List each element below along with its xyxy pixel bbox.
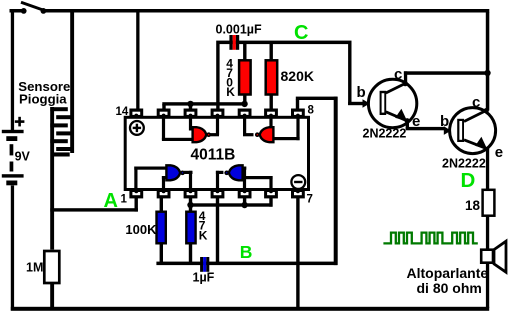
wire top rail right segment <box>43 9 489 13</box>
junction dot pin3 bus <box>187 202 193 208</box>
wire gate4 output to pin4 <box>216 171 224 174</box>
wire top rail left segment <box>10 9 25 13</box>
wire node C vertical <box>348 44 351 105</box>
IC 4011B body U1 <box>125 117 308 189</box>
pin 6 <box>264 190 278 199</box>
svg-text:1µF: 1µF <box>193 271 215 285</box>
wire pin14 drop <box>136 12 139 109</box>
wire Q1 collector horizontal <box>404 71 486 75</box>
wire Q1 base horizontal <box>348 102 365 105</box>
wire 18 to speaker vertical <box>486 217 489 251</box>
svg-text:D: D <box>461 169 476 192</box>
svg-text:4011B: 4011B <box>191 146 236 163</box>
pin 4 <box>211 190 225 199</box>
transistor Q1 2N2222 <box>363 71 417 129</box>
wire right rail <box>486 12 490 111</box>
wire gate1 input from pin12 <box>189 118 192 131</box>
wire pin4 long vertical to node B <box>216 197 219 263</box>
resistor 470K red <box>239 60 251 94</box>
switch S1 <box>21 2 46 14</box>
pin 7 <box>291 190 305 199</box>
pin 12 <box>184 109 198 118</box>
junction dot pin10 470K <box>241 101 247 107</box>
resistor 1M <box>44 251 59 283</box>
wire 47K bottom stub <box>189 244 192 263</box>
pin 8 <box>291 109 305 118</box>
wire gate3 input from pin2 <box>162 176 165 190</box>
svg-text:14: 14 <box>116 106 129 118</box>
svg-text:18: 18 <box>465 198 481 213</box>
wire gate2 output to pin10 <box>243 133 254 136</box>
wire gate1 input from pin13 <box>162 118 165 140</box>
svg-text:e: e <box>412 113 420 130</box>
NAND gate U1D blue mirrored <box>225 165 242 180</box>
wire sensor left electrode down <box>50 107 54 250</box>
speaker <box>481 241 506 272</box>
pin 10 <box>238 109 252 118</box>
svg-text:C: C <box>294 22 308 44</box>
resistor 100K blue <box>157 212 166 244</box>
pin 11 <box>211 109 225 118</box>
wire sensor right electrode drop <box>70 12 74 153</box>
wire node B horizontal <box>156 262 337 266</box>
svg-text:K: K <box>226 85 235 99</box>
resistor 18 <box>483 190 495 216</box>
wire node A horizontal <box>50 208 138 211</box>
pin 1 <box>129 190 143 199</box>
pin 3 <box>184 190 198 199</box>
wire pin1 stub down <box>135 197 138 212</box>
svg-text:8: 8 <box>308 105 315 117</box>
wire node C horizontal (cap wire) <box>216 41 351 45</box>
wire left vertical battery top <box>11 9 14 130</box>
V+ symbol circle plus <box>130 121 144 135</box>
wire bottom rail <box>11 307 489 311</box>
capacitor 1uF <box>200 257 209 272</box>
pin 13 <box>157 109 171 118</box>
svg-text:7: 7 <box>307 194 313 206</box>
pin 9 <box>264 109 278 118</box>
svg-text:b: b <box>440 113 449 130</box>
wire gate2 input from pin9 <box>269 118 272 131</box>
wire pin12 stub <box>189 104 192 110</box>
junction dot pin5 bus <box>241 202 247 208</box>
resistor 820K red <box>266 60 278 94</box>
rain sensor comb <box>50 107 74 156</box>
transistor Q2 2N2222 <box>444 108 496 154</box>
battery 9V <box>2 117 25 186</box>
svg-text:K: K <box>199 228 208 242</box>
wire 820K bottom stub to pin9 <box>270 94 273 109</box>
wire gate3 output to pin3 <box>184 171 193 174</box>
wire battery bottom vertical <box>11 186 14 311</box>
wire gate3 input from pin1 <box>134 167 137 190</box>
capacitor 0.001uF <box>229 35 239 50</box>
svg-text:b: b <box>357 84 366 101</box>
wire lower external bus pins3-6 <box>189 203 273 206</box>
wire 820K top stub <box>270 44 273 61</box>
wire Q2 emitter vertical to 18 <box>486 147 489 190</box>
junction dot pin12 bus <box>187 101 193 107</box>
svg-text:1: 1 <box>121 194 128 206</box>
pin 5 <box>238 190 252 199</box>
wire pin7 vertical to bottom rail <box>296 197 299 307</box>
svg-text:B: B <box>240 242 253 262</box>
wire Q1 emitter to Q2 base horizontal <box>406 127 446 130</box>
V- symbol circle minus <box>291 175 305 189</box>
pin 2 <box>157 190 171 199</box>
svg-text:2N2222: 2N2222 <box>363 127 407 141</box>
svg-text:100K: 100K <box>125 222 157 237</box>
svg-text:di 80 ohm: di 80 ohm <box>417 280 482 296</box>
svg-text:9V: 9V <box>15 150 31 164</box>
wire pin5 stub down <box>243 197 246 207</box>
wire 47K top stub <box>189 197 192 212</box>
svg-text:A: A <box>104 190 118 212</box>
svg-text:Altoparlante: Altoparlante <box>407 265 489 281</box>
junction dot right rail collector <box>484 70 490 76</box>
wire speaker to bottom rail <box>486 263 489 308</box>
wire 100K bottom stub <box>160 244 163 263</box>
svg-text:c: c <box>472 94 480 111</box>
wire pin8 top horizontal <box>296 97 337 100</box>
wire 470K bottom stub <box>243 94 246 106</box>
wire pin13 stub <box>162 104 165 110</box>
svg-text:1M: 1M <box>26 261 43 275</box>
wire 1M to bottom rail <box>50 284 54 308</box>
wire pin6 stub down <box>269 197 272 207</box>
pin 14 <box>129 109 143 118</box>
wire gate1 output to pin11 <box>210 133 219 136</box>
svg-text:e: e <box>495 144 503 161</box>
wire 100K top stub <box>160 197 163 212</box>
wire pin8 stub up <box>296 100 299 110</box>
wire gate2 input from pin8 <box>296 118 299 140</box>
wire 470K top stub <box>243 44 246 61</box>
svg-text:c: c <box>394 66 402 83</box>
resistor 47K blue <box>186 212 195 244</box>
wire gate4 input from pin5 <box>243 167 246 190</box>
svg-text:0.001µF: 0.001µF <box>216 23 262 37</box>
wire right feedback vertical to node B <box>334 97 338 266</box>
wire gate4 input from pin6 <box>269 176 272 190</box>
wire internal top bus pins13-10 <box>162 102 247 105</box>
NAND gate U1B red mirrored <box>256 127 274 142</box>
svg-text:820K: 820K <box>281 68 314 84</box>
wire pin11 vertical to cap <box>216 44 219 109</box>
svg-text:Pioggia: Pioggia <box>19 92 67 107</box>
NAND gate U1C blue <box>166 165 184 180</box>
waveform green pulses <box>383 233 477 244</box>
NAND gate U1A red <box>193 127 211 142</box>
